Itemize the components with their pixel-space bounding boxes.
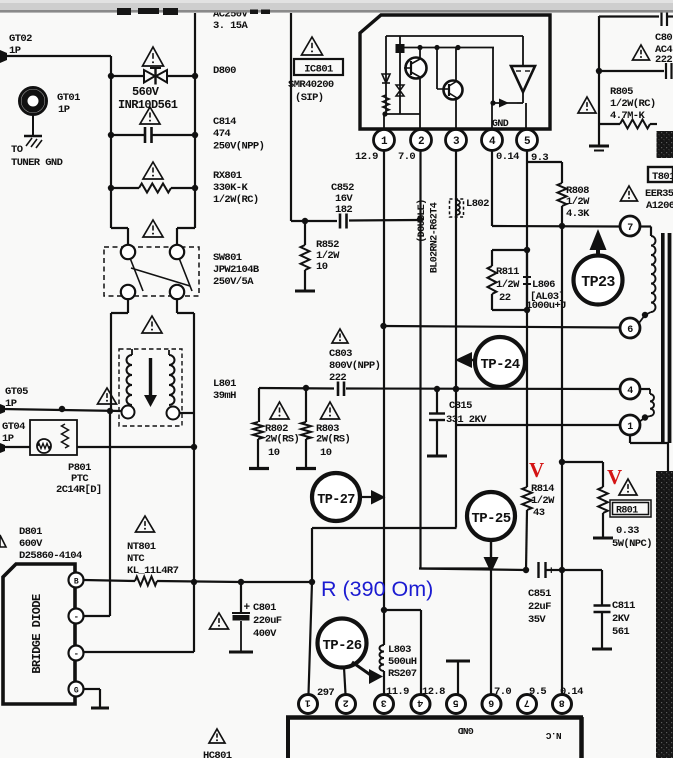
warning triangle T801 <box>621 186 638 201</box>
svg-text:TP-27: TP-27 <box>317 493 355 508</box>
svg-text:C811: C811 <box>612 600 635 612</box>
svg-text:500uH: 500uH <box>388 656 417 668</box>
svg-text:1P: 1P <box>58 104 70 116</box>
wire pin1 net vertical <box>383 149 385 645</box>
scan edge gray bar <box>0 0 673 11</box>
hatched block right upper <box>657 131 673 158</box>
svg-text:1/2W: 1/2W <box>496 279 520 291</box>
transformer T801 label <box>648 167 673 182</box>
wire pin3 net vertical <box>455 149 457 528</box>
svg-text:TP-24: TP-24 <box>480 357 519 373</box>
winding T801 4-1 <box>640 388 650 390</box>
warning triangle L801 <box>142 316 162 333</box>
wire bus bar mid <box>312 527 457 529</box>
right feed vertical from top <box>290 13 292 221</box>
connector pin 5 <box>447 695 466 714</box>
connector pin 6 <box>482 695 501 714</box>
svg-text:2W(RS): 2W(RS) <box>316 434 350 446</box>
svg-text:(DOUBLE): (DOUBLE) <box>416 199 428 242</box>
op-amp U IC801 SMR40200 block <box>360 15 550 129</box>
terminal GT01 eyelet <box>20 88 47 115</box>
warning triangle GT05 <box>98 388 117 404</box>
svg-text:TUNER GND: TUNER GND <box>11 157 63 169</box>
pin 5 IC801 <box>517 130 538 151</box>
svg-text:2: 2 <box>418 136 424 148</box>
wire L801 right leg to bus <box>180 412 194 414</box>
test point TP-24 <box>475 337 525 387</box>
svg-text:8: 8 <box>559 697 565 708</box>
resistor RX801 <box>111 187 139 189</box>
svg-text:D800: D800 <box>213 65 236 77</box>
svg-text:250V(NPP): 250V(NPP) <box>213 141 264 153</box>
svg-text:250V/5A: 250V/5A <box>213 276 254 288</box>
svg-text:R (390 Om): R (390 Om) <box>321 577 433 601</box>
test point TP-26 <box>318 619 367 668</box>
ground R805 <box>589 145 609 148</box>
wire L803 to connector pin3 <box>383 671 385 694</box>
connector pin 3 <box>375 695 394 714</box>
wire pin5 jog to R808 <box>527 161 562 163</box>
IC801 internal rail <box>386 35 523 37</box>
wire pin5 net vertical <box>526 149 528 487</box>
svg-text:4: 4 <box>417 697 423 708</box>
svg-text:4: 4 <box>489 136 496 148</box>
wire SW801 to L801 <box>127 298 129 313</box>
svg-text:1: 1 <box>627 422 633 433</box>
transistor Q2 internal <box>444 81 463 100</box>
connector pin 4 <box>411 695 430 714</box>
wire into SW801 <box>110 188 112 228</box>
wire L801 left leg down <box>109 411 111 616</box>
svg-text:400V: 400V <box>253 628 277 640</box>
capacitor C852 <box>291 220 337 222</box>
svg-text:C814: C814 <box>213 116 236 128</box>
wire pin4 net vertical <box>491 149 493 226</box>
resistor R801 <box>598 487 608 513</box>
svg-text:NTC: NTC <box>127 553 145 565</box>
svg-text:TP23: TP23 <box>581 274 615 291</box>
capacitor C801 electrolytic <box>240 582 242 612</box>
switch SW801 <box>104 247 199 296</box>
wire pin4 to transformer pin7 <box>492 225 620 228</box>
svg-text:1/2W: 1/2W <box>566 196 590 208</box>
svg-text:R814: R814 <box>531 483 554 495</box>
svg-text:GT04: GT04 <box>2 421 25 433</box>
svg-text:22: 22 <box>499 292 511 304</box>
warning triangle RX801 <box>143 162 163 179</box>
warning triangle C803 <box>332 329 348 343</box>
svg-text:561: 561 <box>612 626 629 638</box>
svg-text:3. 15A: 3. 15A <box>213 20 249 32</box>
resistor R802 <box>258 388 260 422</box>
wire TP-25 to connector pin6 <box>490 570 492 695</box>
wire bridge minus1 <box>84 615 110 617</box>
resistor R811 with inductor L806 parallel <box>492 249 527 251</box>
svg-text:0.33: 0.33 <box>616 525 639 537</box>
svg-text:L802: L802 <box>466 198 489 210</box>
capacitor C815 <box>436 389 438 413</box>
svg-text:7: 7 <box>627 223 633 234</box>
connector pin 2 <box>337 695 356 714</box>
svg-text:12.9: 12.9 <box>355 151 378 163</box>
svg-text:HC801: HC801 <box>203 750 232 758</box>
ground R852 <box>295 290 315 293</box>
svg-text:C815: C815 <box>449 400 472 412</box>
resistor R803 <box>305 388 307 422</box>
warning triangle R803 <box>321 402 340 419</box>
svg-text:5W(NPC): 5W(NPC) <box>612 538 652 550</box>
svg-text:NT801: NT801 <box>127 541 156 553</box>
test point TP-27 <box>312 473 360 521</box>
wire GT05 row <box>2 409 121 411</box>
resistor R808 <box>558 183 567 206</box>
pin 1 IC801 <box>374 130 395 151</box>
svg-text:2W(RS): 2W(RS) <box>265 434 299 446</box>
ground tuner gnd <box>24 135 42 138</box>
wire T801 pin1 out <box>629 435 631 443</box>
IC801 internal gnd feed <box>492 48 494 104</box>
capacitor C814 <box>111 134 144 136</box>
diode D800 bidirectional <box>111 75 144 77</box>
wire connector pin1 feed <box>309 582 313 694</box>
svg-text:N.C: N.C <box>545 730 561 741</box>
svg-text:1/2W(RC): 1/2W(RC) <box>610 98 656 110</box>
antenna bar above connector pin5 <box>446 660 470 663</box>
svg-text:2KV: 2KV <box>612 613 630 625</box>
hatched band right lower <box>656 471 673 758</box>
IC801 internal rail2 <box>400 47 494 49</box>
inductor L803 <box>380 645 385 671</box>
wire secondary net vertical <box>561 226 563 694</box>
resistor R805 <box>620 120 650 129</box>
test point TP23 <box>574 256 623 305</box>
wire GT02 to ladder <box>3 55 111 57</box>
svg-text:1P: 1P <box>2 433 14 445</box>
bridge pin B <box>69 573 84 588</box>
pin 6 T801 <box>620 318 640 338</box>
svg-text:EER35: EER35 <box>645 188 673 200</box>
svg-text:IC801: IC801 <box>304 64 333 76</box>
svg-text:0.14: 0.14 <box>496 151 519 163</box>
capacitor C805b <box>596 68 602 74</box>
wire ladder verticals row2-3 <box>110 135 112 188</box>
svg-text:R811: R811 <box>496 266 519 278</box>
warning triangle D800 <box>143 47 164 66</box>
capacitor C805a <box>660 8 662 26</box>
warning triangle HC801 <box>209 729 225 743</box>
svg-text:222: 222 <box>655 54 672 66</box>
wire GT01 to ground <box>32 115 34 136</box>
svg-text:1/2W: 1/2W <box>531 495 555 507</box>
svg-text:TP-25: TP-25 <box>471 511 510 527</box>
svg-text:GT02: GT02 <box>9 33 32 45</box>
svg-text:TO: TO <box>11 144 23 156</box>
svg-text:800V(NPP): 800V(NPP) <box>329 360 380 372</box>
label R801 <box>610 500 651 517</box>
svg-text:BL02RN2-R62T4: BL02RN2-R62T4 <box>430 202 441 273</box>
connector board outline <box>286 715 583 720</box>
svg-text:GND: GND <box>492 119 509 130</box>
svg-text:22uF: 22uF <box>528 601 551 613</box>
resistor R814 <box>522 487 532 510</box>
svg-text:C851: C851 <box>528 588 551 600</box>
warning triangle C801 <box>210 613 229 629</box>
capacitor C851 <box>419 569 490 570</box>
wire branch pin1net to connector pin4 <box>384 609 421 611</box>
svg-text:297: 297 <box>317 687 334 699</box>
bridge pin minus2 <box>69 646 84 661</box>
connector pin 1 <box>299 695 318 714</box>
winding T801 7-6 <box>640 225 651 227</box>
svg-text:10: 10 <box>316 261 328 273</box>
warning triangle NT801 <box>136 516 155 532</box>
svg-text:4.3K: 4.3K <box>566 208 590 220</box>
svg-text:R805: R805 <box>610 86 633 98</box>
svg-text:1: 1 <box>305 697 311 708</box>
svg-text:L803: L803 <box>388 644 411 656</box>
svg-text:V: V <box>607 465 622 489</box>
thermistor P801 PTC <box>2 446 30 448</box>
svg-text:2: 2 <box>343 697 349 708</box>
wire TP-26 to connector pin2 <box>344 668 346 695</box>
svg-text:GND: GND <box>457 725 473 736</box>
svg-text:L806: L806 <box>532 279 555 291</box>
svg-text:RS207: RS207 <box>388 668 417 680</box>
svg-text:T801: T801 <box>652 171 673 183</box>
capacitor C803 <box>259 387 334 390</box>
svg-text:R801: R801 <box>616 506 638 517</box>
svg-text:5: 5 <box>524 136 531 148</box>
IC801 internal left branch <box>385 36 387 114</box>
svg-text:560V: 560V <box>132 85 160 99</box>
terminal GT04 <box>0 443 5 453</box>
terminal GT02 <box>0 50 7 63</box>
svg-text:43: 43 <box>533 507 545 519</box>
pin 4 IC801 <box>482 130 503 151</box>
inductor L802 <box>450 199 464 217</box>
warning triangle C814 <box>140 107 160 124</box>
wire pin2 net vertical <box>419 149 421 569</box>
svg-text:C801: C801 <box>253 602 276 614</box>
svg-text:10: 10 <box>320 447 332 459</box>
capacitor C811 <box>562 569 602 571</box>
svg-text:3: 3 <box>453 136 460 148</box>
svg-text:C80: C80 <box>655 32 672 44</box>
pin 4 T801 <box>620 379 640 399</box>
ground R802 <box>249 467 269 470</box>
svg-text:7: 7 <box>524 697 530 708</box>
svg-text:KL_11L4R7: KL_11L4R7 <box>127 565 179 577</box>
svg-text:330K-K: 330K-K <box>213 182 249 194</box>
svg-text:-: - <box>74 650 79 660</box>
bridge pin minus1 <box>69 609 84 624</box>
svg-text:GT05: GT05 <box>5 386 28 398</box>
bridge diode D801 body <box>3 564 75 704</box>
pin 7 T801 <box>620 216 640 236</box>
wire pin1-net to transformer pin6 <box>384 326 621 328</box>
svg-text:GT01: GT01 <box>57 92 80 104</box>
connector pin 8 <box>553 695 572 714</box>
wire top right feed <box>598 16 600 146</box>
svg-text:JPW2104B: JPW2104B <box>213 264 260 276</box>
svg-text:D801: D801 <box>19 526 42 538</box>
wire bridge minus2 <box>84 651 194 653</box>
svg-text:182: 182 <box>335 204 352 216</box>
warning triangle R805 <box>578 97 596 113</box>
thermistor NT801 NTC <box>84 580 135 581</box>
svg-text:RX801: RX801 <box>213 170 242 182</box>
svg-text:SMR40200: SMR40200 <box>288 79 334 91</box>
wire branch to R801 <box>562 461 603 463</box>
transistor Q1 internal <box>406 58 427 79</box>
svg-text:1: 1 <box>381 136 388 148</box>
svg-text:10: 10 <box>268 447 280 459</box>
warning triangle D801 <box>0 535 6 547</box>
svg-text:+: + <box>548 566 555 578</box>
test point TP-25 <box>467 492 515 540</box>
svg-text:V: V <box>529 458 544 482</box>
warning triangle IC801 <box>302 37 323 55</box>
svg-text:3: 3 <box>381 697 387 708</box>
svg-text:35V: 35V <box>528 614 546 626</box>
connector pin 7 <box>518 695 537 714</box>
wire bridge G to ground <box>84 688 100 690</box>
svg-text:1000u+J: 1000u+J <box>526 300 566 312</box>
svg-text:220uF: 220uF <box>253 615 282 627</box>
bridge pin G <box>69 682 84 697</box>
svg-text:474: 474 <box>213 128 230 140</box>
svg-text:2C14R[D]: 2C14R[D] <box>56 484 102 496</box>
resistor R852 <box>304 221 306 245</box>
ground R803 <box>296 467 316 470</box>
label IC801 <box>294 59 343 75</box>
pin 1 T801 <box>620 415 640 435</box>
svg-text:5: 5 <box>453 697 459 708</box>
warning triangle C804 <box>633 45 650 60</box>
svg-text:BRIDGE DIODE: BRIDGE DIODE <box>30 594 44 674</box>
pin 2 IC801 <box>411 130 432 151</box>
svg-text:1/2W(RC): 1/2W(RC) <box>213 194 259 206</box>
transformer core bars <box>661 233 665 443</box>
svg-text:6: 6 <box>627 325 633 336</box>
svg-text:6: 6 <box>488 697 494 708</box>
left bus vertical upper <box>194 13 196 76</box>
svg-text:D25860-4104: D25860-4104 <box>19 550 82 562</box>
svg-text:TP-26: TP-26 <box>322 638 361 654</box>
wire ladder verticals row1-2 <box>110 76 112 135</box>
terminal GT05 <box>0 404 5 414</box>
svg-text:4.7M-K: 4.7M-K <box>610 110 646 122</box>
svg-text:(SIP): (SIP) <box>295 92 324 104</box>
warning triangle R802 <box>270 402 289 419</box>
svg-text:-: - <box>74 613 79 623</box>
pin 3 IC801 <box>446 130 467 151</box>
svg-text:39mH: 39mH <box>213 390 236 402</box>
op-amp internal comparator <box>511 66 535 92</box>
warning triangle SW801 <box>143 220 163 237</box>
warning triangle R801 <box>619 479 637 495</box>
ground bridge <box>91 707 109 710</box>
svg-text:SW801: SW801 <box>213 252 242 264</box>
wire T801 pin1 to C815 corner <box>456 424 620 426</box>
svg-text:600V: 600V <box>19 538 43 550</box>
clipped text fragments top <box>117 8 131 15</box>
svg-text:A1206-: A1206- <box>646 200 673 212</box>
svg-text:7.0: 7.0 <box>398 151 415 163</box>
inductor L801 common-mode choke <box>119 349 182 426</box>
svg-text:L801: L801 <box>213 378 236 390</box>
svg-text:4: 4 <box>627 386 633 397</box>
svg-text:C803: C803 <box>329 348 352 360</box>
IC801 internal square node <box>399 36 401 45</box>
